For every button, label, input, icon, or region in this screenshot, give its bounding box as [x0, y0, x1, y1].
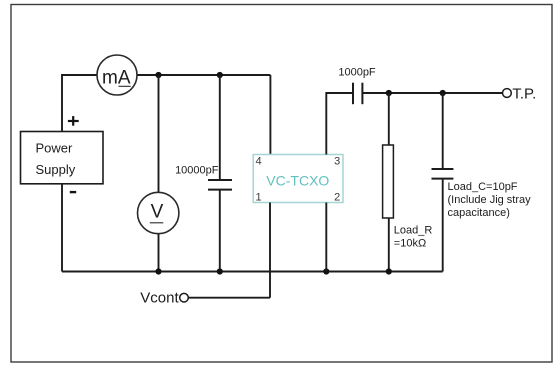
- node junction: output rail to Load_R branch: [386, 90, 392, 96]
- power supply PS1: [21, 132, 104, 184]
- wire from top rail down to VC-TCXO pin 4: [269, 75, 271, 155]
- wire from power supply - terminal down to bottom rail: [61, 184, 63, 272]
- svg-text:T.P.: T.P.: [512, 86, 536, 103]
- capacitor C3 Load_C: [432, 169, 454, 179]
- node junction: capacitor C1 branch at bottom rail: [217, 268, 223, 274]
- wire from capacitor Load_C down to bottom rail: [442, 179, 444, 272]
- svg-text:10000pF: 10000pF: [175, 165, 219, 177]
- label Load_R =10kΩ: [394, 224, 433, 249]
- capacitor C2 1000pF: [353, 83, 362, 105]
- ammeter U1 mA: [97, 55, 137, 95]
- voltmeter U2 V: [138, 192, 179, 233]
- Vcont input terminal: [140, 290, 188, 307]
- wire from top rail down to capacitor C1: [219, 75, 221, 180]
- wire from VC-TCXO pin 1 down to Vcont rail: [269, 203, 271, 298]
- svg-text:capacitance): capacitance): [448, 207, 510, 219]
- oscillator U3 VC-TCXO: [253, 155, 343, 203]
- svg-text:V: V: [151, 202, 164, 223]
- wire from VC-TCXO pin 3 up to output rail: [326, 93, 353, 155]
- wire from capacitor C2 right to test point: [362, 92, 503, 94]
- svg-text:Supply: Supply: [36, 162, 76, 177]
- svg-text:Vcont: Vcont: [140, 290, 179, 307]
- node junction: top rail to capacitor C1 branch: [217, 72, 223, 78]
- svg-text:1: 1: [256, 191, 262, 203]
- label - negative terminal: [70, 191, 76, 193]
- svg-text:=10kΩ: =10kΩ: [394, 238, 426, 250]
- svg-text:4: 4: [256, 156, 262, 168]
- svg-text:mA: mA: [102, 67, 131, 88]
- label Load_C=10pF (Include Jig stray capacitance): [448, 181, 532, 219]
- node junction: voltmeter branch at bottom rail: [155, 268, 161, 274]
- capacitor C1 10000pF: [208, 180, 232, 190]
- node junction: VC-TCXO pin 2 at bottom rail: [323, 268, 329, 274]
- svg-text:Power: Power: [36, 141, 74, 156]
- wire from voltmeter down to bottom rail: [158, 234, 160, 272]
- wire from resistor Load_R down to bottom rail: [388, 218, 390, 272]
- node junction: output rail to Load_C branch: [440, 90, 446, 96]
- wire from output rail down to resistor Load_R: [388, 93, 390, 145]
- svg-text:3: 3: [334, 156, 340, 168]
- node junction: Load_R branch at bottom rail: [386, 268, 392, 274]
- label + positive terminal: [68, 116, 79, 126]
- svg-text:(Include Jig stray: (Include Jig stray: [448, 194, 532, 206]
- svg-text:Load_R: Load_R: [394, 224, 433, 236]
- test point terminal T.P.: [503, 86, 537, 103]
- svg-text:Load_C=10pF: Load_C=10pF: [448, 181, 518, 193]
- wire from power supply + terminal up and right to ammeter: [62, 75, 97, 132]
- svg-text:2: 2: [334, 191, 340, 203]
- node junction: top rail to voltmeter branch: [155, 72, 161, 78]
- wire from capacitor C1 down to bottom rail: [219, 190, 221, 272]
- wire from top rail down to voltmeter: [158, 75, 160, 193]
- svg-text:1000pF: 1000pF: [338, 66, 376, 78]
- wire from VC-TCXO pin 2 down to bottom rail: [325, 203, 327, 272]
- wire from ammeter right along top rail to pin 4 corner: [137, 74, 270, 76]
- bottom ground rail wire: [62, 271, 443, 273]
- wire from Vcont terminal to pin 1 branch: [188, 297, 270, 299]
- wire from output rail down to capacitor Load_C: [442, 93, 444, 169]
- resistor R1 Load_R: [383, 145, 394, 218]
- svg-text:VC-TCXO: VC-TCXO: [266, 173, 329, 189]
